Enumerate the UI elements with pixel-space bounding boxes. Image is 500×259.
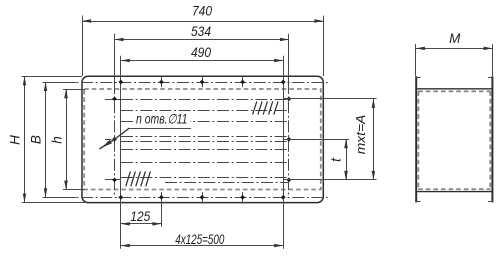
- B extension (left stubs): [43, 83, 76, 198]
- white halo behind callout text: [133, 112, 190, 125]
- hole centerline ticks, top row: [162, 77, 243, 87]
- svg-text:4x125=500: 4x125=500: [175, 232, 224, 247]
- dimension h: [49, 89, 68, 189]
- hole top row #4: [240, 80, 245, 85]
- svg-text:740: 740: [192, 3, 212, 19]
- dimension M: [416, 31, 493, 50]
- hole right column #2: [287, 137, 292, 142]
- hole top row #5: [281, 80, 286, 85]
- hatch marks bottom-left: [126, 171, 151, 186]
- svg-text:M: M: [449, 31, 461, 46]
- left side-hole tick y=179.9: [105, 179, 121, 181]
- left side-hole tick y=139.3: [105, 139, 112, 141]
- right side-hole extension lines: [284, 99, 377, 180]
- side view: hidden duct lines (dashed): [418, 91, 490, 189]
- top bolt-row centerline + B extension: [43, 82, 328, 84]
- svg-text:mxt=A: mxt=A: [353, 115, 368, 155]
- hatch marks top-right: [253, 101, 278, 114]
- hole top row #2: [159, 80, 164, 85]
- dimension 740: [82, 3, 323, 23]
- right corner-hole extension line x=283.2 (490 & 4x125=500): [283, 56, 285, 249]
- hole bottom row #1: [118, 195, 123, 200]
- dimension 490: [121, 44, 283, 62]
- svg-text:В: В: [28, 135, 43, 144]
- svg-text:490: 490: [191, 44, 211, 60]
- hole bottom row #4: [240, 195, 245, 200]
- hole top row #3: [200, 80, 205, 85]
- bottom bolt-row centerline + B extension: [43, 197, 328, 199]
- hole right column #1: [287, 97, 292, 102]
- dimension B: [28, 82, 47, 197]
- hole bottom row #2: [159, 195, 164, 200]
- dimension M extension lines: [416, 44, 493, 76]
- dimension t: [329, 139, 348, 180]
- hole bottom row #5: [281, 195, 286, 200]
- dimension 740 extension lines: [83, 16, 324, 77]
- hole left column #2: [112, 137, 117, 142]
- svg-text:534: 534: [191, 23, 211, 39]
- H extension lines: [22, 77, 87, 203]
- svg-text:H: H: [8, 135, 23, 145]
- duct opening hidden rect (dashed): [84, 89, 321, 190]
- svg-text:h: h: [49, 136, 64, 144]
- dimension H: [8, 76, 27, 202]
- leader line for hole callout: [99, 128, 191, 149]
- 125 extension line x=161.4: [161, 203, 163, 227]
- svg-text:n отв.∅11: n отв.∅11: [136, 111, 188, 126]
- hole left column #1: [112, 97, 117, 102]
- hole centerline ticks, bottom row: [162, 192, 243, 202]
- hole left column #3: [112, 178, 117, 183]
- side view: right flange bar: [488, 76, 493, 202]
- interior hole-row centerlines (9): [121, 100, 289, 183]
- side view: left flange bar: [415, 76, 420, 202]
- flange outer outline (main view): [82, 76, 323, 202]
- h extension lines: [63, 90, 85, 190]
- dimension 534: [115, 23, 289, 41]
- left bolt-column centerline + 534 extension (x=114.4): [114, 34, 116, 198]
- left side-hole tick y=99: [105, 99, 121, 101]
- dimension mxt=A: [353, 99, 375, 180]
- hole right column #3: [287, 178, 292, 183]
- hole bottom row #3: [200, 195, 205, 200]
- dimension 4x125=500: [121, 232, 283, 247]
- side view: duct bottom wall: [417, 191, 491, 193]
- side view: duct top wall: [417, 88, 491, 90]
- dimension 125: [121, 209, 162, 226]
- svg-text:125: 125: [130, 209, 150, 224]
- left corner-hole extension line x=120.8 (490 & 4x125=500): [120, 56, 122, 249]
- right bolt-column centerline + 534 extension (x=289.4): [288, 34, 290, 198]
- hole top row #1: [118, 80, 123, 85]
